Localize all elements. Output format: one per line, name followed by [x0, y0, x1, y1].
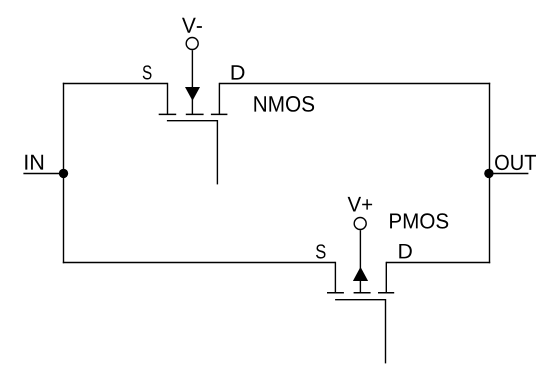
label NMOS: [254, 96, 314, 112]
label PMOS: [390, 213, 448, 228]
wire OUT lead: [490, 173, 529, 175]
node OUT junction dot: [484, 169, 493, 178]
wire PMOS D stub: [385, 262, 387, 293]
wire right rail: [489, 83, 491, 263]
label V-: [182, 18, 202, 33]
transistor NMOS source contact tick: [159, 113, 177, 115]
wire PMOS S stub: [334, 262, 336, 293]
transistor PMOS drain contact tick: [378, 292, 394, 294]
wire IN lead: [23, 173, 64, 175]
wire top rail left (to NMOS S): [63, 83, 168, 85]
wire top rail right (NMOS D to OUT): [219, 83, 490, 85]
pin label S of NMOS: [143, 65, 152, 79]
transistor PMOS gate lead: [385, 299, 387, 363]
pin label D of PMOS: [399, 244, 412, 258]
label IN: [25, 155, 43, 170]
pin label D of NMOS: [232, 65, 245, 79]
wire bottom rail left (IN to PMOS S): [63, 262, 336, 264]
node IN junction dot: [59, 169, 68, 178]
label V+: [348, 197, 373, 212]
transistor NMOS bulk arrowhead (points into channel): [185, 87, 200, 101]
terminal V+ open circle: [354, 218, 366, 230]
transistor PMOS source contact tick: [327, 292, 344, 294]
transistor NMOS gate plate: [167, 120, 218, 122]
label OUT: [495, 155, 536, 170]
wire left rail: [63, 83, 65, 263]
transistor NMOS gate lead: [216, 120, 218, 184]
transistor PMOS bulk arrowhead (points away from channel): [353, 267, 368, 281]
transistor NMOS body arrow wire (V- to bulk): [191, 50, 193, 114]
transistor NMOS drain contact tick: [211, 113, 228, 115]
transistor PMOS body arrow wire (V+ to bulk): [359, 230, 361, 293]
transistor PMOS gate plate: [335, 299, 385, 301]
terminal V- open circle: [186, 38, 198, 50]
transistor NMOS bulk contact tick: [186, 113, 204, 115]
wire bottom rail right (PMOS D to OUT): [386, 262, 490, 264]
pin label S of PMOS: [316, 244, 326, 258]
wire NMOS D stub: [218, 83, 220, 115]
transistor PMOS bulk contact tick: [354, 292, 371, 294]
wire NMOS S stub: [167, 83, 169, 115]
